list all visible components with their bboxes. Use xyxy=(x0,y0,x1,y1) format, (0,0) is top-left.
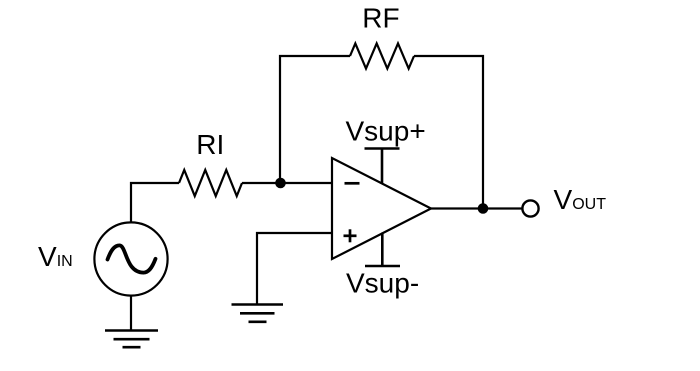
Vsup+ pin xyxy=(365,149,400,185)
wire: + input to ground xyxy=(257,233,332,305)
plus symbol at non-inverting input xyxy=(344,229,357,242)
node B: junction dot at output xyxy=(478,203,489,214)
svg-text:RI: RI xyxy=(196,129,224,160)
svg-text:Vsup+: Vsup+ xyxy=(346,116,426,147)
svg-text:RF: RF xyxy=(362,3,399,34)
wire: top feedback loop right side xyxy=(414,56,483,209)
svg-text:Vsup-: Vsup- xyxy=(346,268,419,299)
wire: VIN to RI xyxy=(131,183,179,223)
resistor RI xyxy=(179,170,242,196)
ground under + input xyxy=(232,305,284,322)
resistor RF xyxy=(350,43,414,68)
wire: RI to inverting input xyxy=(242,182,332,184)
Vsup- pin xyxy=(365,233,400,267)
wire: top feedback loop left vertical xyxy=(280,56,350,183)
output terminal open circle xyxy=(522,200,538,216)
voltage source VIN circle xyxy=(94,222,167,295)
wire: output xyxy=(431,207,522,209)
node A: junction dot at inverting input xyxy=(275,178,286,189)
sine wave inside VIN source xyxy=(108,245,156,272)
wire: VIN source to ground xyxy=(130,296,132,331)
op-amp U1 triangle xyxy=(332,158,431,259)
ground under VIN xyxy=(105,331,158,348)
minus symbol at inverting input xyxy=(345,182,360,185)
